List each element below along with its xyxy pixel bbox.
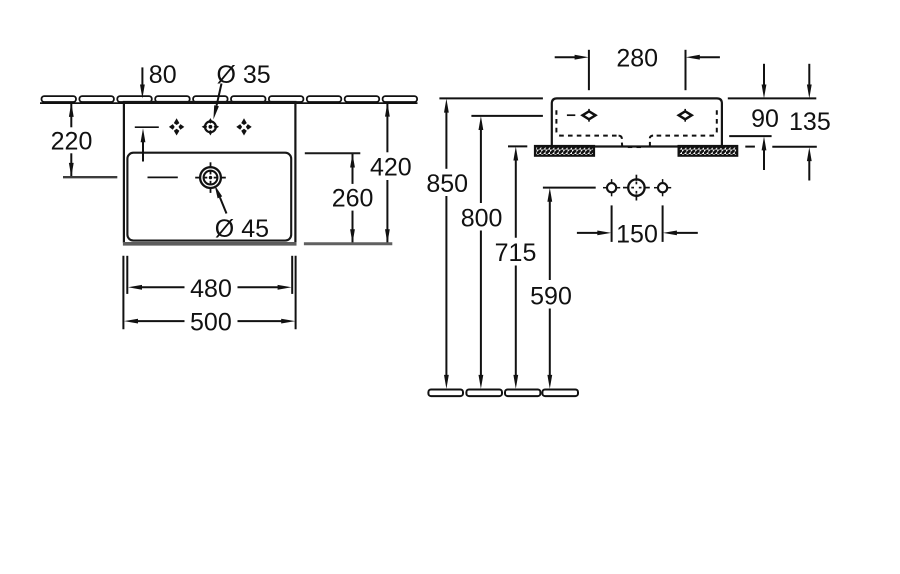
svg-text:220: 220 [51, 127, 93, 155]
basin outline side/bottom view [552, 98, 722, 148]
svg-text:150: 150 [616, 221, 658, 249]
centerline dash left of diamond [567, 114, 575, 116]
extension line top for 260 [305, 152, 361, 154]
dimension 800 vertical [479, 116, 484, 389]
dimension 135 label [789, 108, 831, 136]
svg-text:500: 500 [190, 309, 232, 337]
label D45 [215, 215, 269, 243]
dimension 420 vertical line with arrows [385, 103, 390, 244]
basin bottom edge (grey) [123, 242, 297, 246]
svg-text:Ø 35: Ø 35 [217, 61, 271, 89]
dimension 850 vertical [444, 99, 449, 389]
dimension 90 label [751, 105, 779, 133]
extension line 590 top [543, 187, 596, 189]
svg-text:715: 715 [495, 239, 537, 267]
dimension 800 label [461, 204, 503, 232]
dimension 280 extension lines [589, 50, 686, 90]
dimension 480 line with arrows [128, 285, 292, 290]
faucet hole right cross [236, 118, 251, 135]
fixing pad right (hatched) [679, 146, 738, 156]
label D35 [217, 61, 271, 89]
faucet hole left cross [169, 118, 184, 135]
dimension 260 label [332, 184, 374, 212]
dimension 850 label [426, 170, 468, 198]
faucet hole center symbol [202, 118, 219, 135]
dimension 480 label [190, 275, 232, 303]
leader for D45 [215, 185, 227, 214]
svg-text:Ø 45: Ø 45 [215, 215, 269, 243]
faucet hole centerline dash [135, 126, 159, 128]
dimension 480 extension lines [127, 256, 292, 294]
dimension 715 vertical [513, 147, 518, 389]
leader for D35 [213, 84, 221, 120]
svg-text:800: 800 [461, 204, 503, 232]
extension line top right for 90 135 [728, 97, 817, 99]
extension line 715 top [508, 145, 527, 147]
dimension 500 extension lines [123, 256, 295, 329]
dimension 220 label [51, 127, 93, 155]
dimension 280 label [616, 45, 658, 73]
dimension 500 label [190, 309, 232, 337]
extension line 800 top [471, 115, 543, 117]
svg-text:480: 480 [190, 275, 232, 303]
dimension 90 arrows [762, 64, 767, 170]
dimension 280 arrows [555, 55, 720, 60]
extension line 90 bottom [729, 135, 771, 137]
dimension 150 label [616, 221, 658, 249]
dimension 80 upper arrow [140, 67, 145, 98]
svg-text:135: 135 [789, 108, 831, 136]
dimension 80 label [149, 61, 177, 89]
mounting bolt hole left [603, 179, 620, 196]
hidden contour dashed left+bottom [556, 110, 716, 147]
svg-text:850: 850 [426, 170, 468, 198]
dimension 590 label [530, 282, 572, 310]
fixing pad left (hatched) [535, 146, 594, 156]
extension line at drain height (left, grey) [63, 176, 117, 178]
mounting bolt hole right [654, 179, 671, 196]
dimension 420 label [370, 153, 412, 181]
wall hatch segments [42, 96, 418, 102]
extension line 135 bottom [772, 146, 817, 148]
wall line baseline (left view) [40, 102, 418, 104]
dimension 150 arrows [577, 231, 698, 236]
svg-text:420: 420 [370, 153, 412, 181]
svg-text:280: 280 [616, 45, 658, 73]
dimension 590 vertical [547, 188, 552, 389]
inner bowl rounded rect [127, 153, 291, 241]
basin outline front view [123, 102, 297, 242]
dimension 715 label [495, 239, 537, 267]
dimension 500 line with arrows [124, 319, 295, 324]
dash-dot right of right pad [745, 146, 755, 148]
mounting hole diamond right [679, 109, 692, 122]
drain centerline dash [148, 176, 178, 178]
dimension 220 vertical line with arrows [69, 103, 74, 177]
floor line segments [428, 390, 578, 397]
svg-text:80: 80 [149, 61, 177, 89]
dimension 80 lower arrow [141, 128, 146, 161]
svg-text:590: 590 [530, 282, 572, 310]
mounting hole diamond left [583, 109, 596, 122]
dimension 135 arrows [807, 64, 812, 181]
drain symbol [195, 162, 226, 193]
dimension 150 extension lines [612, 205, 663, 242]
extension line 850 top [439, 97, 543, 99]
drain hole middle [623, 175, 650, 201]
dimension 260 vertical line with arrows [350, 154, 355, 244]
svg-text:90: 90 [751, 105, 779, 133]
svg-text:260: 260 [332, 184, 374, 212]
extension line bottom right (grey) [304, 242, 392, 245]
